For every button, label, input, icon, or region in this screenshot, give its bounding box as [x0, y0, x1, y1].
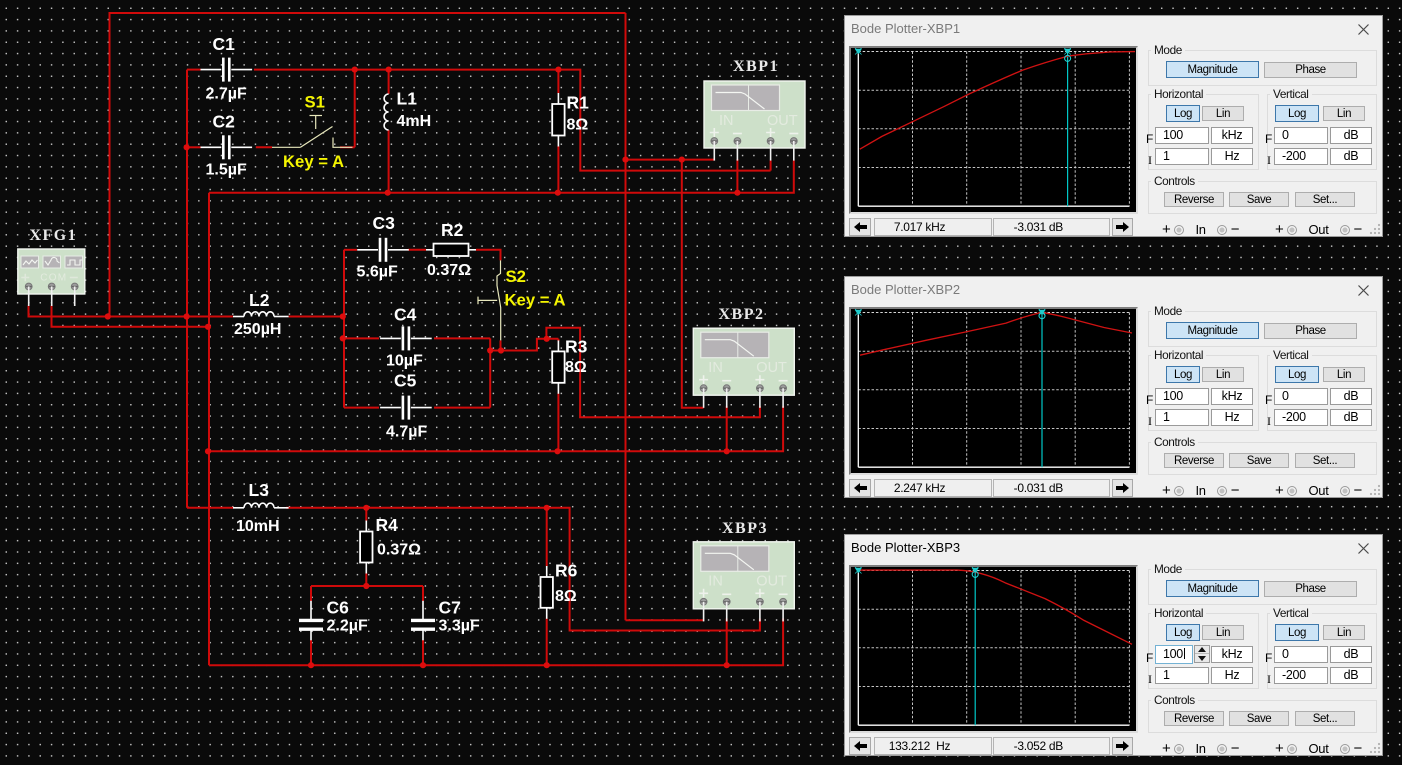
svg-text:4mH: 4mH [397, 113, 432, 130]
svg-text:R4: R4 [376, 515, 399, 535]
svg-text:0.37Ω: 0.37Ω [427, 262, 471, 279]
svg-text:IN: IN [708, 360, 723, 376]
svg-text:L3: L3 [249, 480, 270, 500]
svg-text:XBP2: XBP2 [719, 306, 765, 323]
svg-text:0.37Ω: 0.37Ω [377, 542, 421, 559]
svg-text:2.7µF: 2.7µF [206, 86, 247, 103]
svg-text:S1: S1 [305, 93, 325, 112]
svg-text:8Ω: 8Ω [567, 117, 589, 134]
svg-text:OUT: OUT [767, 113, 798, 129]
svg-text:C7: C7 [439, 598, 461, 618]
svg-text:L1: L1 [397, 89, 418, 109]
svg-text:C1: C1 [213, 34, 236, 54]
svg-text:5.6µF: 5.6µF [357, 264, 398, 281]
svg-text:R1: R1 [567, 93, 590, 113]
svg-text:IN: IN [708, 574, 723, 590]
svg-text:4.7µF: 4.7µF [386, 424, 427, 441]
svg-text:8Ω: 8Ω [555, 588, 577, 605]
svg-text:C4: C4 [394, 305, 417, 325]
svg-text:S2: S2 [506, 267, 526, 286]
svg-text:C5: C5 [394, 371, 417, 391]
svg-text:2.2µF: 2.2µF [327, 618, 368, 635]
svg-text:8Ω: 8Ω [565, 359, 587, 376]
svg-text:R6: R6 [555, 561, 578, 581]
svg-text:Key = A: Key = A [505, 291, 566, 310]
svg-text:OUT: OUT [756, 574, 787, 590]
svg-text:10mH: 10mH [236, 518, 280, 535]
svg-text:XBP1: XBP1 [733, 58, 779, 75]
svg-text:C2: C2 [213, 112, 236, 132]
svg-text:IN: IN [719, 113, 734, 129]
svg-text:COM: COM [40, 273, 67, 284]
svg-text:R3: R3 [565, 337, 588, 357]
svg-text:XFG1: XFG1 [29, 227, 77, 244]
svg-text:XBP3: XBP3 [722, 520, 768, 537]
svg-text:R2: R2 [441, 220, 464, 240]
svg-text:250µH: 250µH [234, 321, 281, 338]
svg-text:1.5µF: 1.5µF [206, 162, 247, 179]
svg-text:L2: L2 [249, 290, 270, 310]
svg-text:C6: C6 [327, 598, 350, 618]
svg-text:Key = A: Key = A [283, 152, 344, 171]
svg-text:C3: C3 [373, 213, 396, 233]
svg-text:10µF: 10µF [386, 353, 423, 370]
svg-text:OUT: OUT [756, 360, 787, 376]
svg-text:3.3µF: 3.3µF [439, 618, 480, 635]
